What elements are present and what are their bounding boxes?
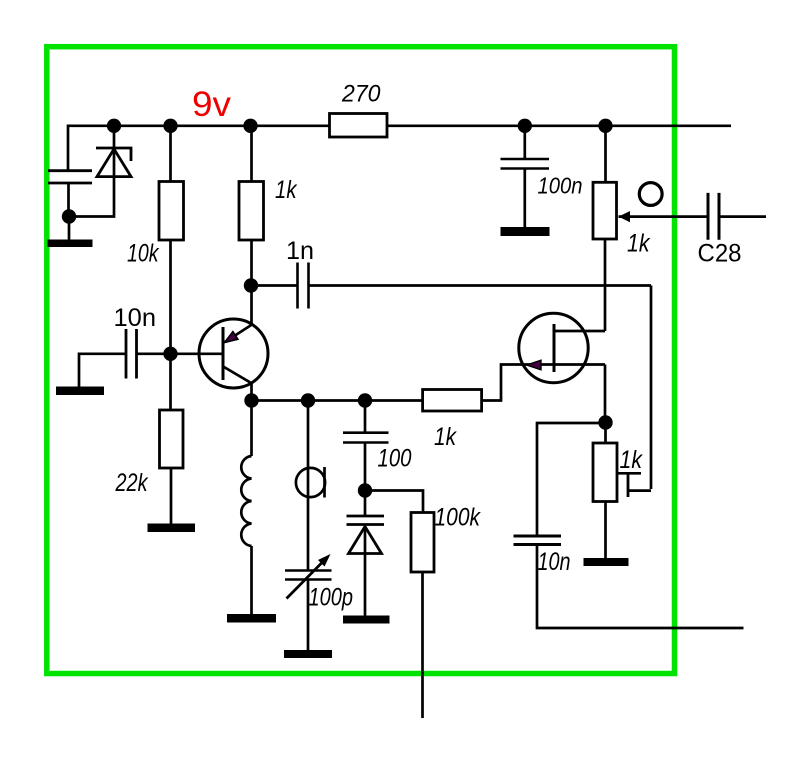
label 22k xyxy=(115,469,149,497)
capacitor 10n (input) xyxy=(79,329,171,379)
capacitor C28 xyxy=(708,193,766,240)
ground (under 100n) xyxy=(501,227,550,236)
node rail/100 xyxy=(358,393,372,407)
wire input cap to ground xyxy=(78,353,81,387)
wire base node to Q1 base xyxy=(171,352,224,355)
svg-text:1k: 1k xyxy=(620,446,644,474)
wire rail to inductor xyxy=(250,401,253,457)
node junction C1/D1 xyxy=(62,209,76,223)
transistor Q1 (PNP) xyxy=(199,319,268,388)
wire varicap node to 100k xyxy=(365,491,423,513)
resistor 1k (horizontal) xyxy=(423,390,482,412)
wire top supply rail xyxy=(68,124,731,127)
resistor 22k xyxy=(160,410,184,524)
label 270 xyxy=(341,81,381,108)
ground (under inductor) xyxy=(227,614,276,623)
label 10n (bottom) xyxy=(538,548,571,576)
svg-text:270: 270 xyxy=(341,81,381,108)
border frame (green) xyxy=(47,47,675,674)
node supply/D1 xyxy=(107,119,121,133)
wire Q2 source down xyxy=(604,365,607,423)
label 1k (mid) xyxy=(434,423,457,451)
svg-text:9v: 9v xyxy=(192,85,232,124)
ground (input) xyxy=(56,387,104,396)
ground (under bottom pot) xyxy=(584,558,629,566)
node supply/R 1k xyxy=(243,119,257,133)
node source/pot2 xyxy=(598,415,612,429)
capacitor 10n (bottom) xyxy=(514,536,744,628)
varicap diode D2 xyxy=(347,491,385,617)
label 9v xyxy=(192,85,232,124)
wire Q2 drain up xyxy=(604,240,607,331)
label 10k xyxy=(127,240,160,268)
svg-text:C28: C28 xyxy=(698,240,742,268)
wire Q1 emitter up xyxy=(250,286,253,325)
capacitor C1 xyxy=(48,171,92,217)
capacitor 100n xyxy=(501,126,550,227)
capacitor 1n xyxy=(251,263,309,309)
wire source node to 10n xyxy=(537,423,606,535)
svg-text:100: 100 xyxy=(378,445,412,473)
svg-text:100k: 100k xyxy=(435,504,482,532)
wire node to R 1k xyxy=(250,240,253,286)
wire feedback vertical xyxy=(650,286,653,490)
svg-text:1k: 1k xyxy=(275,176,298,204)
wire rail to trimmer xyxy=(307,401,310,571)
svg-text:22k: 22k xyxy=(115,469,149,497)
ground (under 22k) xyxy=(148,524,196,533)
label 1n xyxy=(286,237,314,265)
label 1k (bottom pot) xyxy=(620,446,644,474)
svg-text:1k: 1k xyxy=(627,230,651,258)
node supply/R 10k xyxy=(163,119,177,133)
label 100k xyxy=(435,504,482,532)
label 100n xyxy=(538,173,583,199)
wire 10k to base node xyxy=(169,240,172,354)
potentiometer 1k (top right) xyxy=(593,126,708,239)
ground (under 100p) xyxy=(284,650,332,658)
node rail/trimmer xyxy=(301,393,315,407)
transistor Q2 (JFET) xyxy=(519,313,605,382)
label 1k (top pot) xyxy=(627,230,651,258)
node supply/100n xyxy=(518,119,532,133)
zener diode D1 xyxy=(69,126,131,217)
label 1k (left) xyxy=(275,176,298,204)
potentiometer 1k (bottom right) xyxy=(593,423,651,559)
wire collector rail xyxy=(252,399,423,402)
ground (left, under C1) xyxy=(48,240,93,248)
node 100/varicap xyxy=(358,483,372,497)
wire 1n to feedback line xyxy=(309,284,652,287)
label C28 xyxy=(698,240,742,268)
svg-text:1k: 1k xyxy=(434,423,457,451)
wire 1k to Q2 gate xyxy=(482,365,605,401)
capacitor 100 xyxy=(343,401,389,491)
inductor L1 xyxy=(241,456,251,614)
trimmer circle element xyxy=(296,467,325,498)
label 10n (input cap) xyxy=(114,304,157,332)
resistor 270 xyxy=(330,114,388,138)
wire node to ground xyxy=(68,217,71,240)
circle marker (top right) xyxy=(639,183,662,206)
wire 9v rail to 10k xyxy=(169,126,172,182)
svg-text:10n: 10n xyxy=(538,548,571,576)
svg-text:1n: 1n xyxy=(286,237,314,265)
node base junction xyxy=(163,347,177,361)
label 100p xyxy=(309,584,354,612)
resistor 100k xyxy=(411,513,434,719)
svg-text:10n: 10n xyxy=(114,304,157,332)
svg-text:10k: 10k xyxy=(127,240,160,268)
svg-text:100p: 100p xyxy=(309,584,354,612)
wire left drop to capacitor C1 xyxy=(67,125,70,171)
variable capacitor 100p xyxy=(285,554,332,650)
node supply/pot xyxy=(598,119,612,133)
label 100 xyxy=(378,445,412,473)
wire base node to 22k xyxy=(169,354,172,410)
ground (under varicap) xyxy=(343,616,390,624)
node collector rail xyxy=(244,393,258,407)
resistor 10k xyxy=(159,182,184,241)
wire Q1 collector down xyxy=(250,384,253,401)
node emitter / 1n xyxy=(244,278,258,292)
svg-text:100n: 100n xyxy=(538,173,583,199)
resistor 1k (left) xyxy=(239,126,264,240)
